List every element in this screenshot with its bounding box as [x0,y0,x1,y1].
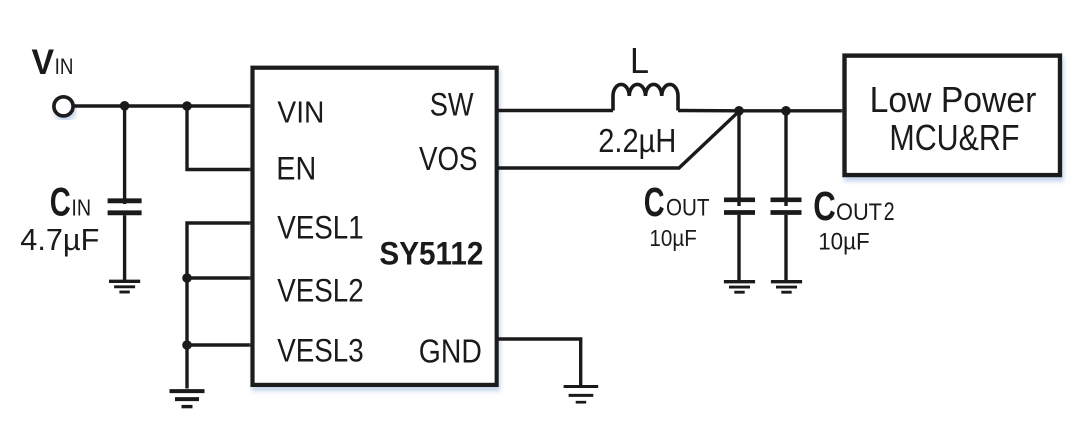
wire COUT2 bottom [784,215,787,282]
junction dot CIN tap [120,101,130,111]
wire GND [499,339,581,386]
svg-text:C: C [813,183,836,229]
wire COUT2 top [784,111,787,206]
svg-text:MCU&RF: MCU&RF [889,117,1019,158]
junction dot VESL3 [182,340,192,350]
wire CIN bottom [123,215,126,281]
svg-text:VOS: VOS [419,141,478,178]
svg-text:L: L [630,40,649,81]
wire VESL1 [187,223,251,389]
label COUT2 [813,183,894,229]
junction dot COUT [734,106,744,116]
capacitor COUT [724,200,755,213]
input terminal VIN [54,97,73,116]
label CIN [50,180,91,224]
wire VESL2 [187,276,251,279]
svg-text:EN: EN [276,150,316,186]
svg-text:IN: IN [71,194,91,220]
svg-text:4.7µF: 4.7µF [20,223,99,257]
wire VESL3 [187,343,251,346]
label VIN [32,43,74,82]
svg-text:OUT: OUT [836,199,882,226]
inductor L1 [613,84,678,110]
svg-text:10µF: 10µF [818,229,870,256]
svg-text:2: 2 [884,199,895,226]
svg-text:SY5112: SY5112 [379,234,483,271]
wire COUT bottom [737,215,740,282]
svg-text:GND: GND [419,333,482,370]
capacitor CIN [108,201,142,213]
wire CIN top [123,106,126,204]
ground COUT2 [771,282,802,293]
ground CIN [109,281,140,292]
ground VESL [170,391,205,407]
wire SW output to MCU [678,109,844,113]
svg-text:Low Power: Low Power [870,79,1037,120]
junction dot EN tap [182,101,192,111]
ground COUT [724,282,755,293]
op-amp U1 SY5112 box [253,68,497,385]
wire EN [187,106,251,170]
junction dot VESL2 [182,273,192,283]
svg-text:V: V [32,43,55,82]
svg-text:VESL3: VESL3 [277,333,364,369]
svg-text:SW: SW [430,85,474,122]
svg-text:VESL1: VESL1 [277,210,364,246]
svg-text:C: C [644,179,665,225]
svg-text:VIN: VIN [277,94,324,129]
ground GND pin [564,387,599,403]
capacitor COUT2 [771,200,802,213]
svg-text:C: C [50,180,71,224]
wire SW [499,109,614,112]
wire COUT top [737,111,740,206]
svg-text:2.2µH: 2.2µH [598,122,676,159]
wire VOS feedback with diagonal [499,111,740,168]
label COUT [644,179,710,225]
svg-text:OUT: OUT [666,195,710,222]
junction dot COUT2 [781,106,791,116]
svg-text:VESL2: VESL2 [277,272,364,308]
svg-text:IN: IN [55,54,74,79]
wire VIN input [74,104,252,107]
load block Low Power MCU&RF [845,56,1061,176]
svg-text:10µF: 10µF [649,225,697,251]
